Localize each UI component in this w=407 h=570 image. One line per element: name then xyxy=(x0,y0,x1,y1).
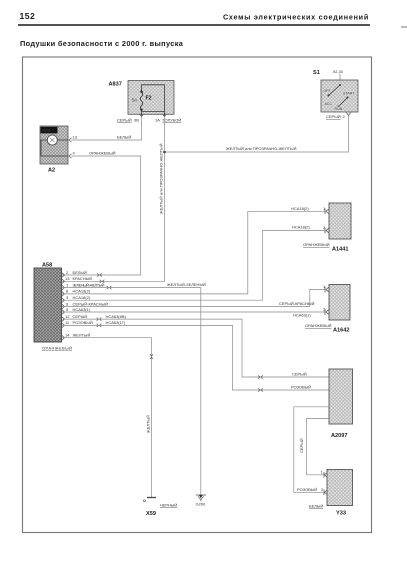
svg-text:X59: X59 xyxy=(146,511,156,517)
svg-text:13: 13 xyxy=(65,276,70,281)
pin 8 of A58 xyxy=(62,289,69,296)
wire A58 pin5 to A1642 pin2 xyxy=(62,311,326,313)
inline connector on pin11 wire xyxy=(97,324,102,327)
stub wire to K2-30 xyxy=(339,74,341,81)
wire A2097 lower output to Y33 pin2 xyxy=(294,407,329,493)
svg-text:ACC: ACC xyxy=(325,102,333,106)
svg-text:СЕРЫЙ: СЕРЫЙ xyxy=(117,118,132,123)
page edge mark xyxy=(401,26,407,28)
pin 2 of A1642 xyxy=(323,307,329,315)
lamp H39 circle xyxy=(47,135,57,145)
svg-text:НСА63(1): НСА63(1) xyxy=(73,307,91,312)
inline connector on X59 wire xyxy=(150,354,153,359)
svg-text:A1441: A1441 xyxy=(332,247,348,253)
svg-text:ЗЕЛЕНЫЙ-ЖЕЛТЫЙ: ЗЕЛЕНЫЙ-ЖЕЛТЫЙ xyxy=(73,282,105,287)
svg-text:ЖЕЛТЫЙ или ПРОЗРАЧНО-ЖЕЛТЫЙ: ЖЕЛТЫЙ или ПРОЗРАЧНО-ЖЕЛТЫЙ xyxy=(159,143,164,214)
svg-text:ОРАНЖЕВЫЙ: ОРАНЖЕВЫЙ xyxy=(42,346,72,351)
svg-text:RUN: RUN xyxy=(335,107,343,111)
svg-text:Y33: Y33 xyxy=(336,510,346,516)
svg-text:14: 14 xyxy=(65,333,70,338)
svg-text:A2097: A2097 xyxy=(331,433,347,439)
pin 2 of S1 xyxy=(343,113,351,120)
svg-text:НСА18(2): НСА18(2) xyxy=(291,206,309,211)
component A58 box xyxy=(34,268,62,342)
svg-text:НСА63(8В): НСА63(8В) xyxy=(106,314,127,319)
svg-text:ОРАНЖЕВЫЙ: ОРАНЖЕВЫЙ xyxy=(305,323,332,328)
diagram frame xyxy=(23,57,372,533)
svg-text:НСА18(2): НСА18(2) xyxy=(73,289,91,294)
pin 3 of A58 xyxy=(62,295,69,302)
pin 2 of Y33 xyxy=(321,487,327,495)
component A2097 box xyxy=(329,369,353,424)
label H39 tag xyxy=(41,127,58,134)
svg-text:Н39: Н39 xyxy=(42,128,51,133)
fuse F2 xyxy=(140,91,143,111)
inline connector on pin1 wire xyxy=(107,286,112,289)
svg-text:ОРАНЖЕВЫЙ: ОРАНЖЕВЫЙ xyxy=(303,242,330,247)
pin 2 of A1441 xyxy=(323,225,329,233)
svg-text:ЖЕЛТЫЙ: ЖЕЛТЫЙ xyxy=(146,415,151,433)
svg-text:S1: S1 xyxy=(313,70,320,76)
ground G200 symbol xyxy=(196,495,206,501)
svg-text:БЕЛЫЙ: БЕЛЫЙ xyxy=(73,270,87,275)
inline connector on pin12 wire xyxy=(97,318,102,321)
pin 1 of A1642 xyxy=(323,284,329,292)
component Y33 box xyxy=(327,470,353,506)
pin 14 of A58 xyxy=(62,333,70,340)
svg-text:СЕРЫЙ: СЕРЫЙ xyxy=(299,438,304,453)
svg-text:НСА18(2): НСА18(2) xyxy=(292,225,310,230)
svg-text:К2-30: К2-30 xyxy=(333,70,343,74)
wire A2097 lower output to Y33 pin1 xyxy=(307,419,330,475)
wire A58 pin11 to A2097 second pin xyxy=(62,325,330,390)
pin 13 of A2 xyxy=(69,135,78,143)
component S1 box xyxy=(321,80,358,112)
pin 13 of A58 xyxy=(62,276,70,283)
svg-text:5А: 5А xyxy=(132,98,137,103)
svg-text:A2: A2 xyxy=(48,168,55,174)
svg-text:3В: 3В xyxy=(134,118,139,123)
svg-text:СЕРЫЙ: СЕРЫЙ xyxy=(292,372,307,377)
svg-text:Схемы электрических соединений: Схемы электрических соединений xyxy=(223,13,369,22)
header rule xyxy=(18,24,370,26)
svg-text:РОЗОВЫЙ: РОЗОВЫЙ xyxy=(73,320,93,325)
svg-text:СЕРЫЙ: СЕРЫЙ xyxy=(326,114,341,119)
inline connector on СЕРЫЙ wire xyxy=(258,375,263,378)
svg-text:СЕРЫЙ-КРАСНЫЙ: СЕРЫЙ-КРАСНЫЙ xyxy=(279,301,315,306)
pin 5 of A58 xyxy=(62,307,69,314)
svg-text:БЕЛЫЙ: БЕЛЫЙ xyxy=(117,134,131,139)
pin 11 of A58 xyxy=(62,320,70,327)
svg-text:ГОЛУБОЙ: ГОЛУБОЙ xyxy=(163,118,182,123)
pin 3B of A837 xyxy=(134,114,144,123)
pin 2 of A58 xyxy=(62,270,69,277)
svg-text:НСА18(2): НСА18(2) xyxy=(73,295,91,300)
inner wire loop of A2 xyxy=(41,140,68,156)
inline connector on pin13 wire xyxy=(100,280,105,283)
wire A58 pin14 to X59 xyxy=(62,338,152,498)
pin 6 of A58 xyxy=(62,301,69,308)
svg-text:F2: F2 xyxy=(146,96,152,102)
svg-text:СЕРЫЙ-КРАСНЫЙ: СЕРЫЙ-КРАСНЫЙ xyxy=(73,301,109,306)
wire A58 pin3 to A1441 pin2 xyxy=(62,231,326,301)
wire A58 pin12 to A2097 upper pin xyxy=(62,319,330,377)
wire A58 pin8 to A1441 pin1 xyxy=(62,211,326,294)
pin 1 of Y33 xyxy=(321,469,328,477)
svg-text:ЖЕЛТЫЙ: ЖЕЛТЫЙ xyxy=(73,333,91,338)
svg-text:РОЗОВЫЙ: РОЗОВЫЙ xyxy=(291,385,311,390)
junction dot xyxy=(163,151,166,154)
svg-text:НСА63(1Г): НСА63(1Г) xyxy=(106,320,127,325)
inline connector on pin2 wire xyxy=(97,273,102,276)
svg-text:ЖЕЛТЫЙ-ЗЕЛЕНЫЙ: ЖЕЛТЫЙ-ЗЕЛЕНЫЙ xyxy=(167,282,206,287)
svg-text:НСА63(1): НСА63(1) xyxy=(293,313,311,318)
svg-text:A1642: A1642 xyxy=(333,328,349,334)
component A1642 box xyxy=(329,285,350,321)
wire S1 pin2 to junction xyxy=(165,116,349,153)
svg-text:A58: A58 xyxy=(42,263,52,269)
svg-text:ОРАНЖЕВЫЙ: ОРАНЖЕВЫЙ xyxy=(89,150,116,155)
wire A2 pin4 to A58 pin2 xyxy=(62,156,141,275)
svg-text:12: 12 xyxy=(65,314,70,319)
svg-text:OFF: OFF xyxy=(324,89,332,93)
svg-text:ЧЕРНЫЙ: ЧЕРНЫЙ xyxy=(160,503,177,508)
X59 terminal xyxy=(144,498,157,502)
pin 1A of A837 xyxy=(155,114,167,123)
pin 1 of A1441 xyxy=(323,206,329,214)
svg-text:КРАСНЫЙ: КРАСНЫЙ xyxy=(73,276,93,281)
inline connector on РОЗОВЫЙ wire xyxy=(258,388,263,391)
svg-text:START: START xyxy=(343,92,355,96)
svg-text:152: 152 xyxy=(20,11,36,21)
svg-text:G200: G200 xyxy=(196,502,207,507)
switch contact RUN-line xyxy=(338,97,349,108)
wire A837 pin1A down to A58 pin13 xyxy=(62,116,165,281)
svg-text:БЕЛЫЙ: БЕЛЫЙ xyxy=(309,504,323,509)
pin 1 of A58 xyxy=(62,282,69,289)
svg-text:Подушки безопасности с 2000 г.: Подушки безопасности с 2000 г. выпуска xyxy=(20,39,184,48)
svg-text:A837: A837 xyxy=(109,82,122,88)
svg-text:13: 13 xyxy=(73,135,78,140)
wire A837 pin3B to A2 pin13 xyxy=(72,116,142,140)
svg-text:РОЗОВЫЙ: РОЗОВЫЙ xyxy=(297,487,317,492)
pin 4 of A2 xyxy=(69,151,76,159)
wire A58 pin1 to ground G200 xyxy=(62,288,201,495)
switch contact OFF-line xyxy=(328,84,342,97)
svg-text:1А: 1А xyxy=(155,118,160,123)
component A1441 box xyxy=(329,203,351,239)
inner wire loop of A837 xyxy=(142,85,165,116)
svg-text:СЕРЫЙ: СЕРЫЙ xyxy=(73,314,88,319)
wire A58 pin6 to A1642 pin1 xyxy=(62,290,326,307)
component A2 box xyxy=(40,126,68,164)
component A837 box xyxy=(128,81,174,115)
svg-text:ЖЕЛТЫЙ или ПРОЗРАЧНО-ЖЕЛТЫЙ: ЖЕЛТЫЙ или ПРОЗРАЧНО-ЖЕЛТЫЙ xyxy=(226,146,297,151)
pin 12 of A58 xyxy=(62,314,70,321)
